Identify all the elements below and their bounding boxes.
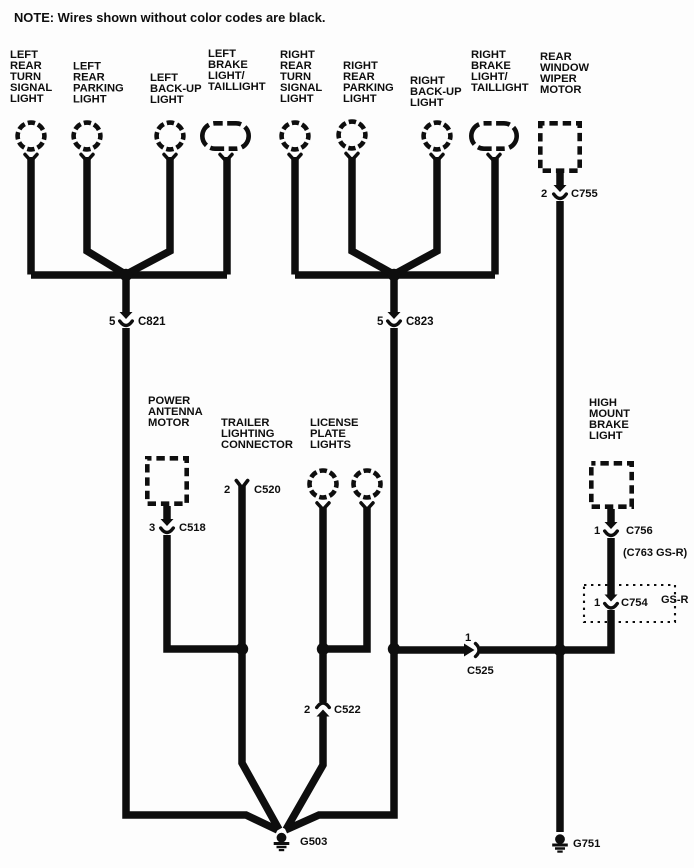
label rear window wiper motor bbox=[540, 51, 590, 96]
svg-text:TAILLIGHT: TAILLIGHT bbox=[471, 82, 529, 94]
connector C755 bbox=[554, 185, 567, 199]
svg-text:2: 2 bbox=[224, 484, 230, 496]
lamp high mount brake light (dashed box) bbox=[591, 463, 631, 506]
svg-text:1: 1 bbox=[594, 525, 600, 537]
junction dot trailer wire / antenna wire bbox=[236, 643, 248, 655]
junction dot right group wire at ground bus bbox=[388, 643, 400, 655]
svg-text:GS-R: GS-R bbox=[661, 594, 689, 606]
wire right back-up diagonal bbox=[398, 157, 438, 273]
label right brake light/taillight bbox=[471, 49, 529, 94]
motor power antenna (dashed box) bbox=[147, 458, 186, 503]
svg-text:C823: C823 bbox=[406, 316, 434, 328]
wire license left lamp down to C522 bbox=[319, 508, 327, 702]
svg-text:C756: C756 bbox=[626, 525, 653, 537]
svg-text:G503: G503 bbox=[300, 836, 327, 848]
connector C522 bbox=[317, 703, 330, 717]
junction dot license wires bbox=[317, 643, 329, 655]
lamp right back-up light bbox=[424, 123, 451, 150]
svg-text:C522: C522 bbox=[334, 704, 361, 716]
label left brake light/taillight bbox=[208, 48, 266, 93]
label right back-up light bbox=[410, 75, 462, 109]
lamp license plate right bbox=[354, 471, 381, 498]
label left rear parking light bbox=[73, 61, 124, 106]
svg-text:G751: G751 bbox=[573, 838, 600, 850]
svg-text:TAILLIGHT: TAILLIGHT bbox=[208, 81, 266, 93]
connector C754 bbox=[605, 595, 618, 609]
wire right rear parking diagonal bbox=[352, 157, 391, 273]
terminal at right brake lamp bbox=[488, 154, 500, 161]
lamp left brake light/taillight bbox=[202, 123, 248, 148]
wire C754 down then left along ground bus bbox=[480, 610, 611, 650]
wire C756 to C754 bbox=[607, 538, 615, 595]
svg-text:C755: C755 bbox=[571, 188, 598, 200]
terminal at left rear turn signal lamp bbox=[25, 154, 37, 161]
svg-text:C821: C821 bbox=[138, 316, 166, 328]
svg-text:C754: C754 bbox=[621, 597, 649, 609]
svg-text:MOTOR: MOTOR bbox=[540, 84, 581, 96]
wire antenna motor to C518 bbox=[163, 506, 171, 519]
wire license right lamp down then left to junction bbox=[323, 508, 367, 649]
lamp left rear turn signal light bbox=[18, 123, 45, 150]
svg-text:LIGHT: LIGHT bbox=[73, 94, 107, 106]
wire C520 down then diagonal to G503 bbox=[242, 486, 279, 830]
wire C522 down then diagonal to G503 bbox=[286, 716, 323, 830]
junction dot right group bbox=[388, 269, 400, 281]
svg-text:LIGHT: LIGHT bbox=[589, 430, 623, 442]
lamp right rear parking light bbox=[339, 122, 366, 149]
junction dot wiper wire at ground bus bbox=[554, 644, 566, 656]
lamp right rear turn signal light bbox=[282, 123, 309, 150]
label left back-up light bbox=[150, 72, 202, 106]
label trailer lighting connector bbox=[221, 417, 293, 451]
svg-text:LIGHT: LIGHT bbox=[10, 93, 44, 105]
label left rear turn signal light bbox=[10, 49, 52, 105]
wire high mount to C756 bbox=[607, 509, 615, 522]
terminal at right rear turn signal lamp bbox=[289, 154, 301, 161]
wire junction to C823 bbox=[390, 275, 398, 312]
svg-text:C525: C525 bbox=[467, 665, 494, 677]
terminal Y of trailer lighting connector C520 bbox=[236, 481, 247, 489]
terminal at right back-up lamp bbox=[431, 154, 443, 161]
wire left bus: turn signal down, across, brake light up bbox=[31, 157, 227, 275]
svg-text:3: 3 bbox=[149, 522, 155, 534]
svg-text:1: 1 bbox=[465, 632, 471, 644]
svg-text:2: 2 bbox=[541, 188, 547, 200]
wire ground bus from right-group junction to C525 arrow bbox=[394, 646, 466, 654]
label right rear parking light bbox=[343, 60, 394, 105]
svg-text:(C763 GS-R): (C763 GS-R) bbox=[623, 547, 688, 559]
lamp left back-up light bbox=[157, 123, 184, 150]
terminal at left brake lamp bbox=[220, 154, 232, 161]
svg-text:5: 5 bbox=[377, 316, 384, 328]
wire C823 down through bus to bottom, then toward G503 bbox=[286, 328, 395, 830]
wire right bus: turn signal down, across, brake light up bbox=[295, 157, 495, 275]
wire C755 down to G751 bbox=[556, 201, 564, 832]
connector C823 bbox=[388, 312, 401, 326]
svg-text:LIGHT: LIGHT bbox=[410, 97, 444, 109]
junction dot left group bbox=[120, 269, 132, 281]
ground G751 bbox=[552, 834, 568, 851]
svg-text:NOTE: Wires shown without colo: NOTE: Wires shown without color codes ar… bbox=[14, 10, 325, 25]
connector C525 (inline arrow) bbox=[464, 644, 479, 657]
svg-text:C520: C520 bbox=[254, 484, 281, 496]
label license plate lights bbox=[310, 417, 359, 451]
svg-text:1: 1 bbox=[594, 597, 600, 609]
svg-text:CONNECTOR: CONNECTOR bbox=[221, 439, 293, 451]
terminal at right rear parking lamp bbox=[346, 153, 358, 160]
wire C821 down to bottom left corner then toward G503 bbox=[126, 328, 278, 830]
terminal at left back-up lamp bbox=[164, 154, 176, 161]
lamp right brake light/taillight bbox=[471, 123, 516, 148]
connector C756 bbox=[605, 522, 618, 536]
terminal at left rear parking lamp bbox=[81, 154, 93, 161]
connector C821 bbox=[120, 312, 133, 326]
lamp left rear parking light bbox=[74, 123, 101, 150]
svg-text:2: 2 bbox=[304, 704, 310, 716]
svg-text:C518: C518 bbox=[179, 522, 206, 534]
svg-text:LIGHT: LIGHT bbox=[280, 93, 314, 105]
wire C518 down then right to trailer wire junction bbox=[167, 535, 240, 649]
svg-text:LIGHTS: LIGHTS bbox=[310, 439, 352, 451]
terminal at license plate left lamp bbox=[317, 503, 329, 510]
wire junction to C821 bbox=[122, 275, 130, 312]
label right rear turn signal light bbox=[280, 49, 322, 105]
connector C518 bbox=[161, 519, 174, 533]
label power antenna motor bbox=[148, 395, 203, 429]
GS-R dotted option box bbox=[584, 585, 675, 622]
terminal at license plate right lamp bbox=[361, 503, 373, 510]
svg-text:5: 5 bbox=[109, 316, 116, 328]
label high mount brake light bbox=[589, 397, 630, 442]
wire wiper motor to C755 bbox=[556, 173, 564, 185]
lamp license plate left bbox=[310, 471, 337, 498]
wire left back-up diagonal bbox=[130, 157, 171, 273]
svg-text:LIGHT: LIGHT bbox=[343, 93, 377, 105]
svg-text:MOTOR: MOTOR bbox=[148, 417, 189, 429]
svg-text:LIGHT: LIGHT bbox=[150, 94, 184, 106]
motor rear window wiper (dashed box) bbox=[540, 123, 579, 170]
ground G503 bbox=[274, 833, 290, 850]
wire left rear parking diagonal bbox=[87, 157, 123, 273]
